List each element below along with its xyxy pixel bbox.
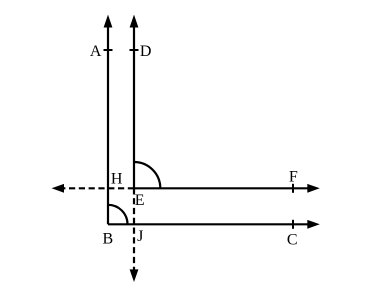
svg-text:D: D <box>140 43 152 60</box>
svg-text:E: E <box>135 192 145 209</box>
svg-text:B: B <box>102 231 113 248</box>
svg-text:J: J <box>137 228 143 245</box>
svg-text:A: A <box>90 43 102 60</box>
svg-text:C: C <box>287 231 298 248</box>
svg-text:F: F <box>289 169 298 186</box>
svg-text:H: H <box>111 170 123 187</box>
